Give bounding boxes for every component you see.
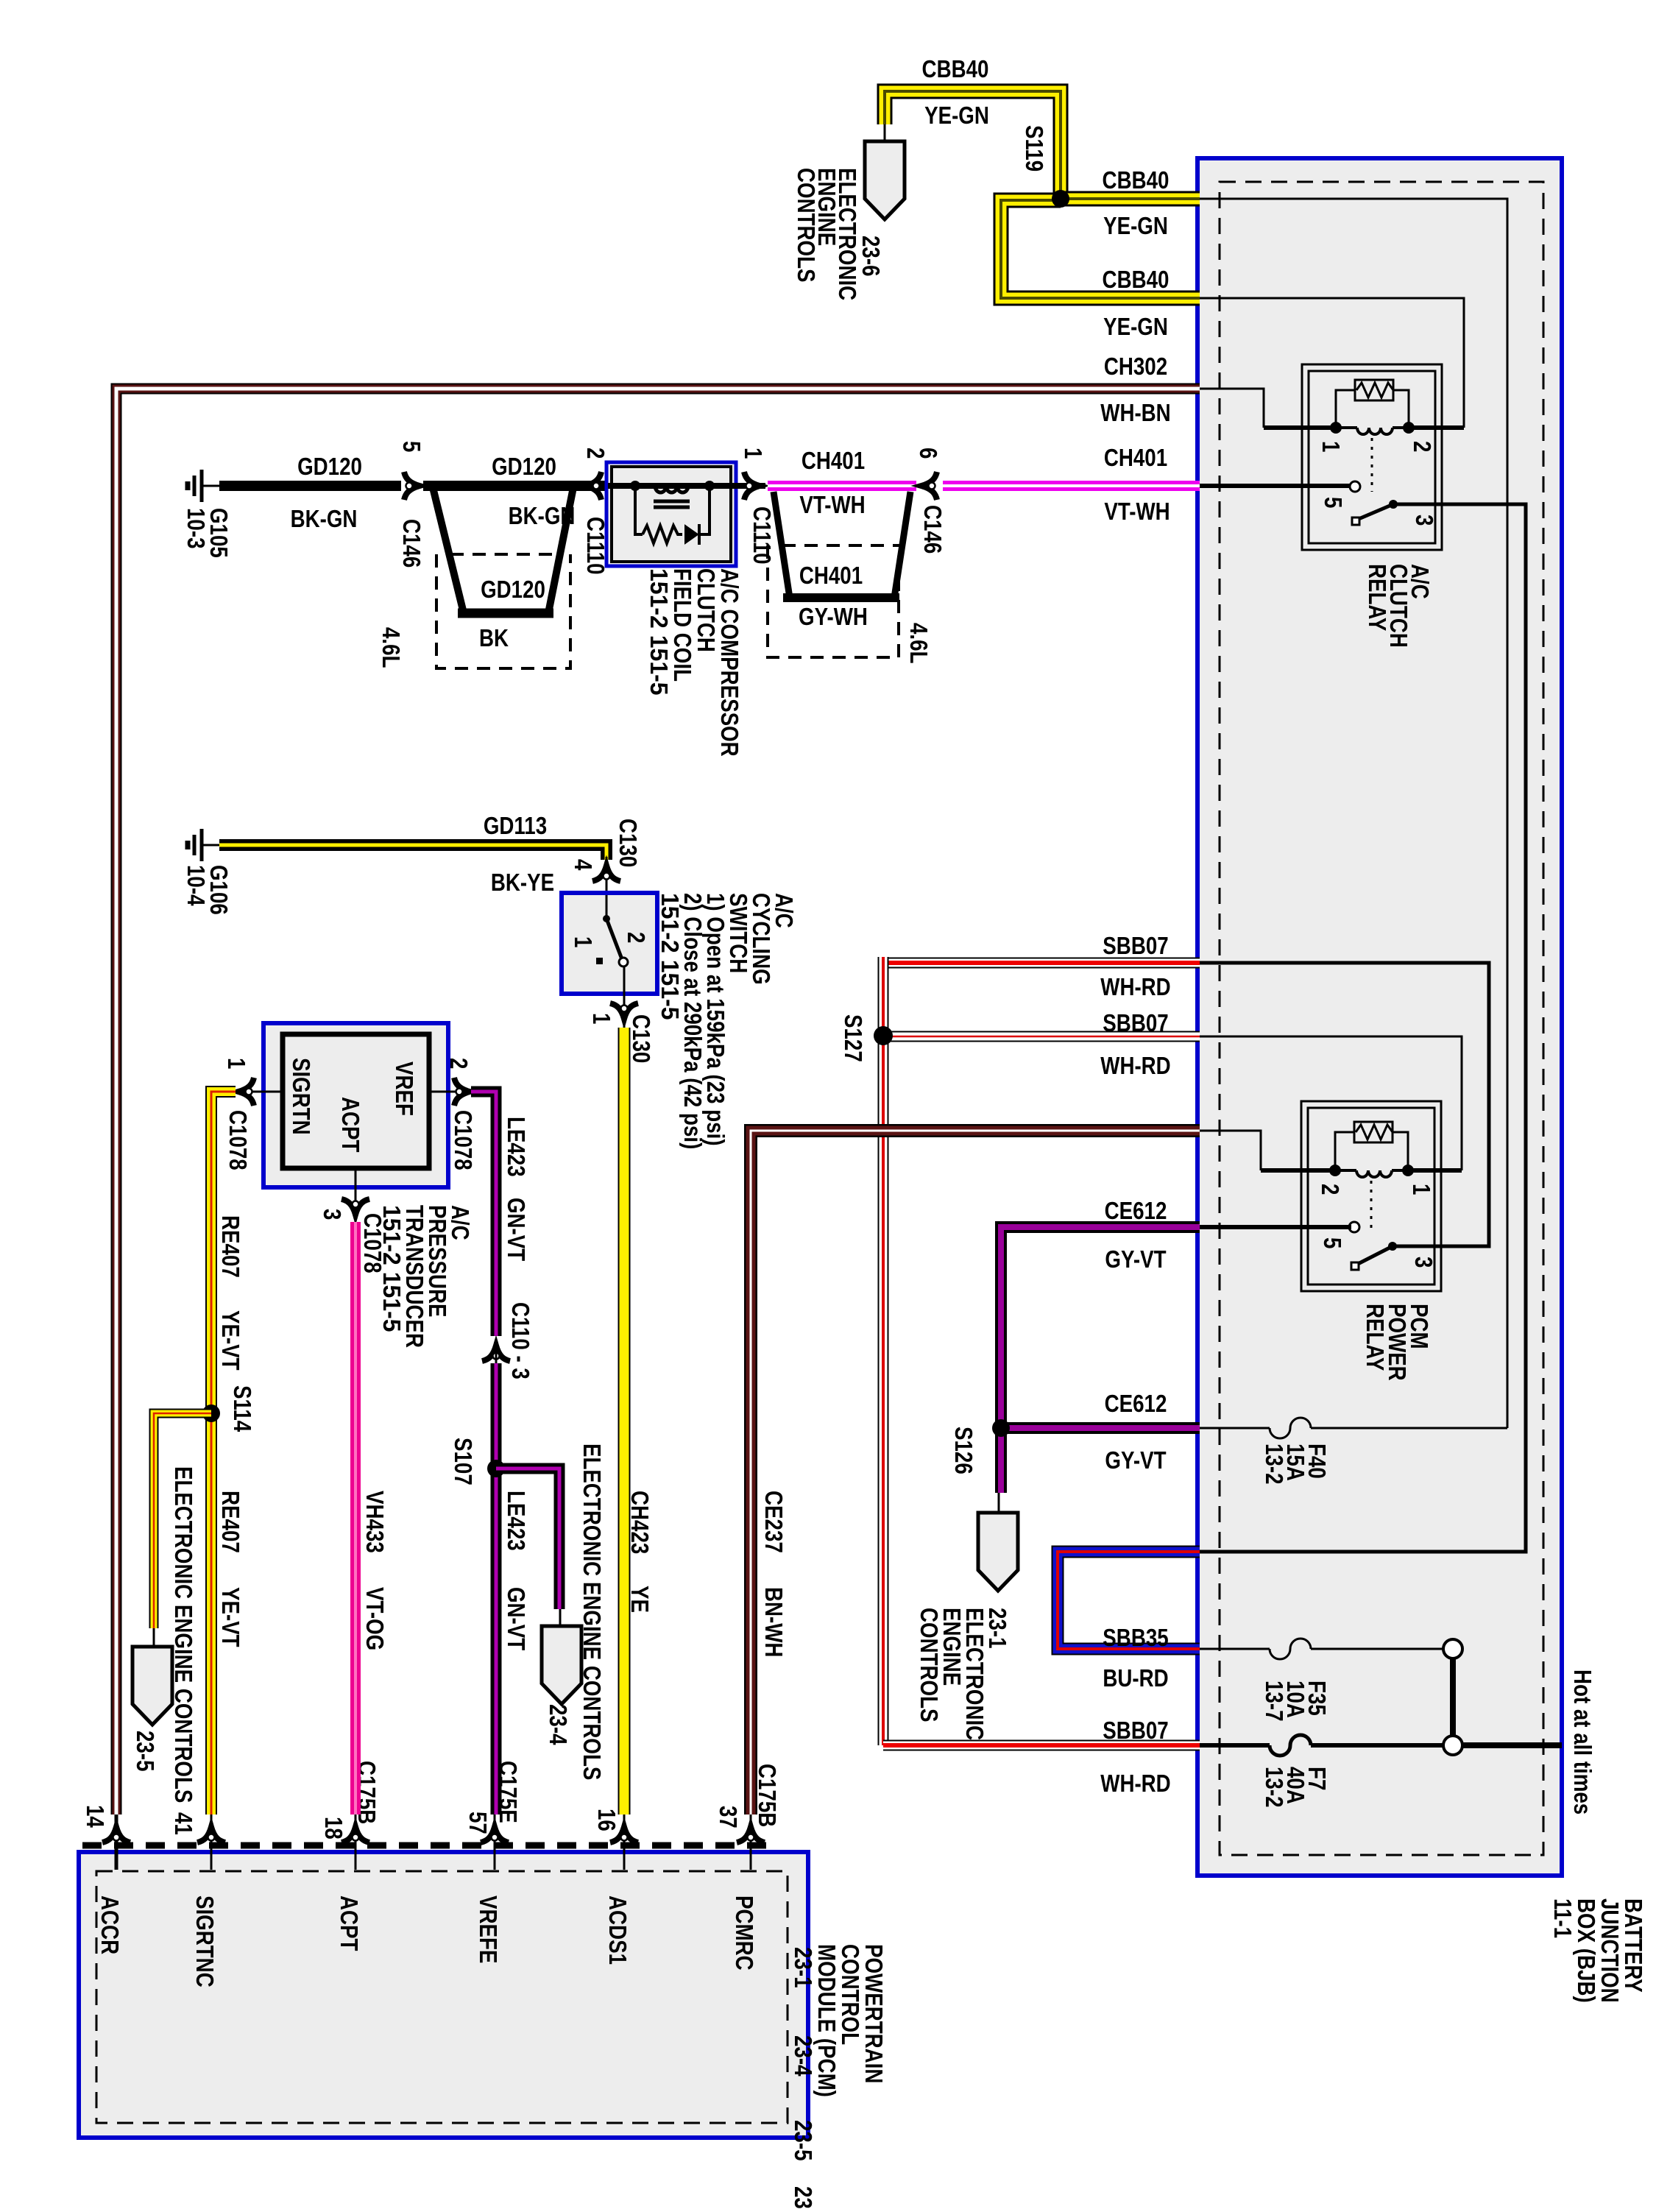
svg-text:57: 57 xyxy=(464,1812,492,1834)
BJB internal wire from CBB40 run2 to A/C relay coil pin 2 xyxy=(1200,298,1464,428)
pentagon connector 23-4 ELECTRONIC ENGINE CONTROLS xyxy=(559,1609,562,1628)
wire GD113 BK-YE from G106 to cycling switch xyxy=(219,845,606,860)
svg-text:GD120: GD120 xyxy=(492,453,556,480)
wire LE423 GN-VT from transducer pin2 down to PCM pin 57 xyxy=(471,1092,496,1336)
svg-text:ELECTRONIC ENGINE CONTROLS: ELECTRONIC ENGINE CONTROLS xyxy=(578,1444,606,1780)
transducer pin 3 wire + arrow C1078 xyxy=(355,1168,357,1222)
svg-text:10-3: 10-3 xyxy=(183,508,210,549)
svg-text:4.6L: 4.6L xyxy=(905,623,933,664)
svg-text:41: 41 xyxy=(170,1812,197,1835)
hot bus vertical link xyxy=(1450,1658,1456,1736)
svg-text:BK-YE: BK-YE xyxy=(491,869,554,896)
inline connector arrow 5 C146 xyxy=(404,472,420,500)
svg-text:CH401: CH401 xyxy=(799,562,863,589)
svg-text:11-1: 11-1 xyxy=(1549,1898,1577,1938)
svg-text:C146: C146 xyxy=(398,519,425,568)
svg-text:CH302: CH302 xyxy=(1104,353,1167,380)
svg-text:3: 3 xyxy=(1410,1257,1437,1268)
svg-text:CH401: CH401 xyxy=(802,447,865,474)
svg-text:CE237: CE237 xyxy=(760,1491,788,1553)
svg-text:YE-VT: YE-VT xyxy=(217,1587,244,1647)
svg-text:BK-GN: BK-GN xyxy=(509,502,576,529)
pentagon connector 23-1 ELECTRONIC ENGINE CONTROLS xyxy=(998,1493,1000,1515)
svg-text:WH-RD: WH-RD xyxy=(1100,1770,1170,1797)
BJB internal wire from CBB40 run1 to F40 (vertical at right) xyxy=(1200,199,1507,1428)
svg-text:CONTROLS: CONTROLS xyxy=(916,1608,943,1722)
svg-text:GD113: GD113 xyxy=(484,812,547,839)
svg-text:WH-BN: WH-BN xyxy=(1100,399,1170,426)
svg-text:WH-RD: WH-RD xyxy=(1100,1052,1170,1079)
svg-text:1: 1 xyxy=(1317,441,1345,452)
wire SBB07 WH-RD bottom run into BJB to F7 xyxy=(883,1740,1200,1751)
BJB inner dashed border xyxy=(1220,182,1543,1855)
svg-text:C1078: C1078 xyxy=(224,1110,252,1170)
ground G105 xyxy=(188,470,202,502)
field coil: resistor + diode branch xyxy=(635,486,643,534)
svg-text:2: 2 xyxy=(582,448,609,459)
pentagon connector 23-6 ELECTRONIC ENGINE CONTROLS xyxy=(884,124,886,144)
svg-text:23-4: 23-4 xyxy=(545,1704,572,1745)
wire CBB40 YE-GN Z-run from S119 (run 2) xyxy=(1001,200,1200,298)
svg-text:4: 4 xyxy=(570,859,597,871)
splice S127 xyxy=(874,1026,893,1045)
svg-text:CE612: CE612 xyxy=(1105,1197,1167,1224)
svg-text:GD120: GD120 xyxy=(297,453,362,480)
wire CE612 GY-VT from S126 back into BJB to fuse F40 xyxy=(1001,1422,1200,1434)
wire SBB07 WH-RD run2 into BJB xyxy=(883,1031,1200,1042)
wire SBB07 WH-RD left riser (S127) xyxy=(878,957,889,1745)
field coil: coil arcs with core lines xyxy=(655,486,688,492)
BJB internal wire: F7 fuse run from SBB07 bottom xyxy=(1200,1743,1270,1748)
svg-text:SBB07: SBB07 xyxy=(1103,1009,1168,1036)
BJB internal: CE612 to PCM relay pin 5 xyxy=(1200,1225,1351,1229)
svg-text:WH-RD: WH-RD xyxy=(1100,973,1170,1000)
svg-text:CONTROLS: CONTROLS xyxy=(793,168,820,283)
svg-text:S107: S107 xyxy=(450,1438,477,1485)
wire RE407 YE-VT from transducer pin1 down to PCM pin 41 xyxy=(211,1092,236,1815)
wire CH302 WH-BN from BJB down left side to PCM pin 14 xyxy=(116,389,1200,1815)
svg-text:RE407: RE407 xyxy=(217,1215,244,1278)
svg-text:C146: C146 xyxy=(919,505,946,554)
svg-text:LE423: LE423 xyxy=(503,1117,530,1177)
svg-text:BK-GN: BK-GN xyxy=(291,505,358,532)
svg-text:GN-VT: GN-VT xyxy=(503,1198,530,1261)
svg-text:3: 3 xyxy=(1411,515,1438,526)
svg-text:S127: S127 xyxy=(840,1014,867,1062)
component: A/C cycling switch box xyxy=(562,893,657,994)
BJB internal thick feed from PCM relay coil pin 1 up xyxy=(1408,1168,1462,1173)
svg-text:ACPT: ACPT xyxy=(337,1097,364,1153)
svg-text:13-2: 13-2 xyxy=(1261,1767,1288,1808)
svg-text:CH401: CH401 xyxy=(1104,444,1167,471)
svg-text:151-2 151-5: 151-2 151-5 xyxy=(645,568,673,696)
svg-text:CBB40: CBB40 xyxy=(1103,266,1170,293)
svg-text:C110 - 3: C110 - 3 xyxy=(507,1302,534,1379)
svg-text:23-4: 23-4 xyxy=(790,2035,817,2077)
wire GD120 BK-GN ground run xyxy=(219,481,401,491)
dashed 4.6L box (left) xyxy=(450,553,557,556)
powertrain control module (PCM) box xyxy=(79,1852,808,2138)
svg-text:1: 1 xyxy=(588,1013,615,1024)
wire CH401 VT-WH trapezoid top xyxy=(768,481,916,491)
svg-text:2: 2 xyxy=(1317,1184,1344,1195)
svg-text:23-6: 23-6 xyxy=(857,236,885,277)
svg-text:SIGRTNC: SIGRTNC xyxy=(191,1895,219,1987)
PCM connector dashed bus line xyxy=(82,1842,769,1849)
svg-text:RELAY: RELAY xyxy=(1364,564,1391,631)
svg-text:C1078: C1078 xyxy=(450,1110,477,1170)
splice S107 xyxy=(487,1460,505,1477)
battery junction box (BJB) outline xyxy=(1197,158,1562,1876)
svg-text:1: 1 xyxy=(740,448,767,459)
splice S126 xyxy=(992,1419,1010,1437)
fuse F35 10A xyxy=(1270,1639,1311,1659)
svg-text:ELECTRONIC ENGINE CONTROLS: ELECTRONIC ENGINE CONTROLS xyxy=(170,1466,197,1803)
svg-text:151-2 151-5: 151-2 151-5 xyxy=(657,893,684,1020)
relay: PCM POWER RELAY xyxy=(1301,1101,1441,1291)
svg-text:1: 1 xyxy=(223,1058,250,1069)
svg-text:SIGRTN: SIGRTN xyxy=(288,1058,315,1135)
svg-text:BN-WH: BN-WH xyxy=(760,1587,788,1657)
svg-text:23-5: 23-5 xyxy=(132,1731,159,1772)
svg-text:VT-WH: VT-WH xyxy=(1104,498,1170,525)
svg-text:SBB35: SBB35 xyxy=(1103,1624,1168,1651)
wire RE407 branch from S114 to pentagon 23-5 xyxy=(154,1413,211,1628)
svg-text:GD120: GD120 xyxy=(481,576,545,603)
svg-text:GY-WH: GY-WH xyxy=(799,603,868,630)
svg-text:VH433: VH433 xyxy=(361,1491,389,1553)
BJB internal: SBB07 run1 to PCM relay pin 3 xyxy=(1200,963,1489,1246)
wire SBB07 WH-RD run1 (thick) from S127 riser into BJB xyxy=(883,958,1200,969)
svg-text:YE-GN: YE-GN xyxy=(1103,212,1168,239)
svg-text:YE: YE xyxy=(626,1586,654,1613)
svg-text:13-7: 13-7 xyxy=(1261,1681,1288,1722)
inline connector C110-3 arrow xyxy=(482,1346,510,1361)
PCM pin 14 ACCR stub and arrow xyxy=(115,1815,118,1870)
dashed 4.6L box (right) xyxy=(782,544,902,547)
wire CE237 BN-WH from BJB down to PCM pin 37 xyxy=(751,1131,1200,1815)
trapezoid alt-wiring CH401 (4.6L) legs xyxy=(774,492,910,598)
A/C relay pin 3 wire to SBB35 exit xyxy=(1200,504,1526,1552)
fuse F40 15A xyxy=(1270,1418,1311,1438)
inline connector arrow 1 C1110 (right of coil) xyxy=(735,483,765,489)
connector arrow 4 C130 xyxy=(606,857,608,894)
trapezoid alt-wiring GD120 (4.6L) legs xyxy=(433,487,573,613)
wire LE423 GN-VT below C110-3 xyxy=(491,1363,502,1815)
svg-text:GY-VT: GY-VT xyxy=(1105,1446,1166,1474)
svg-text:5: 5 xyxy=(1320,497,1347,508)
svg-text:ACCR: ACCR xyxy=(96,1895,124,1954)
svg-text:GY-VT: GY-VT xyxy=(1105,1245,1166,1273)
svg-text:6: 6 xyxy=(915,448,942,459)
PCM pin 57 VREFE stub and arrow xyxy=(494,1815,496,1870)
BJB internal thick feed from A/C relay coil pin 2 xyxy=(1409,425,1464,430)
wire CH423 YE from cycling switch to PCM pin 16 xyxy=(618,1028,631,1815)
field coil: through wire xyxy=(608,483,735,489)
svg-text:13-2: 13-2 xyxy=(1261,1444,1288,1485)
cycling switch internals xyxy=(606,895,608,919)
svg-text:2: 2 xyxy=(445,1058,473,1069)
splice S119 xyxy=(1052,190,1069,208)
svg-text:18: 18 xyxy=(320,1817,347,1840)
BJB internal wire: F35 fuse run from SBB35 xyxy=(1200,1648,1270,1650)
svg-text:CH423: CH423 xyxy=(626,1491,654,1554)
component: A/C pressure transducer box xyxy=(263,1023,448,1187)
svg-text:Hot at all times: Hot at all times xyxy=(1569,1669,1596,1815)
svg-text:YE-GN: YE-GN xyxy=(1103,313,1168,340)
svg-text:RE407: RE407 xyxy=(217,1491,244,1553)
transducer pin 1 wire + arrow C1078 xyxy=(234,1091,283,1093)
inline connector arrow 6 C146 xyxy=(921,472,937,500)
svg-text:23-9: 23-9 xyxy=(790,2186,817,2208)
svg-text:C1110: C1110 xyxy=(749,506,776,565)
svg-text:1: 1 xyxy=(1408,1184,1435,1195)
svg-text:3: 3 xyxy=(319,1209,346,1220)
relay: A/C CLUTCH RELAY xyxy=(1302,364,1442,550)
svg-text:5: 5 xyxy=(398,441,425,452)
svg-text:S119: S119 xyxy=(1021,125,1048,172)
svg-text:10-4: 10-4 xyxy=(183,865,210,906)
wire SBB35 BU-RD U-loop outside BJB xyxy=(1058,1552,1200,1649)
svg-text:SBB07: SBB07 xyxy=(1103,932,1168,959)
svg-text:C1078: C1078 xyxy=(359,1213,386,1273)
svg-text:BU-RD: BU-RD xyxy=(1103,1664,1168,1692)
svg-text:CBB40: CBB40 xyxy=(1103,166,1170,194)
PCM pin 16 ACDS1 stub and arrow xyxy=(623,1815,626,1870)
svg-text:4.6L: 4.6L xyxy=(378,627,405,668)
splice S114 xyxy=(202,1404,220,1422)
svg-text:C130: C130 xyxy=(615,819,642,867)
svg-text:23-5: 23-5 xyxy=(790,2120,817,2161)
svg-text:14: 14 xyxy=(82,1805,109,1828)
wire LE423 branch from S107 to pentagon 23-4 xyxy=(496,1469,559,1609)
wire CE612 GY-VT from BJB to S126 riser xyxy=(1001,1227,1200,1493)
svg-text:CBB40: CBB40 xyxy=(922,55,989,82)
wire CH401 VT-WH from C146 into BJB xyxy=(943,481,1200,491)
svg-text:23-1: 23-1 xyxy=(790,1947,817,1988)
svg-text:2: 2 xyxy=(1409,441,1436,452)
BJB internal wire from CH302 to A/C relay coil pin 1 xyxy=(1200,389,1264,428)
svg-text:VREFE: VREFE xyxy=(475,1895,502,1963)
hot feed wire to box edge (Hot at all times) xyxy=(1462,1742,1562,1748)
BJB internal wire: F40 fuse run xyxy=(1200,1427,1270,1430)
svg-text:SBB07: SBB07 xyxy=(1103,1717,1168,1744)
ground G106 xyxy=(188,829,202,861)
svg-text:2: 2 xyxy=(623,932,650,943)
transducer pin 2 wire + arrow C1078 xyxy=(429,1091,471,1093)
pentagon connector 23-5 ELECTRONIC ENGINE CONTROLS xyxy=(153,1628,155,1649)
component: A/C compressor clutch field coil box xyxy=(606,462,736,566)
PCM pin 37 PCMRC stub and arrow xyxy=(750,1815,752,1870)
wire GD120 BK-GN to field coil xyxy=(423,481,608,491)
PCM pin 18 ACPT stub and arrow xyxy=(355,1815,357,1870)
connector arrow 1 C130 (below switch) xyxy=(623,966,626,1028)
BJB internal wire CH401 to A/C relay pin 5 xyxy=(1200,484,1351,488)
svg-text:GN-VT: GN-VT xyxy=(503,1587,530,1650)
svg-text:YE-VT: YE-VT xyxy=(217,1310,244,1371)
fuse F7 40A xyxy=(1270,1735,1311,1756)
svg-text:CE612: CE612 xyxy=(1105,1390,1167,1417)
wire VH433 VT-OG from transducer pin3 down to PCM pin 18 xyxy=(350,1222,361,1815)
svg-text:C175B: C175B xyxy=(754,1764,781,1827)
svg-text:16: 16 xyxy=(593,1809,620,1831)
wire CBB40 YE-GN from S119 into BJB (run 1) xyxy=(1061,191,1200,207)
svg-text:YE-GN: YE-GN xyxy=(924,102,989,129)
hot feed ring terminal (top) xyxy=(1443,1639,1462,1658)
BJB internal thick feed to A/C relay coil pin 1 xyxy=(1264,425,1336,430)
svg-text:BK: BK xyxy=(479,624,509,651)
wire CBB40 YE-GN top run with corner down to pentagon stub xyxy=(885,91,1061,199)
hot feed ring terminal (bottom) xyxy=(1443,1736,1462,1755)
svg-text:VREF: VREF xyxy=(391,1061,418,1116)
svg-text:1: 1 xyxy=(570,936,597,947)
svg-text:ACPT: ACPT xyxy=(336,1895,363,1951)
svg-text:37: 37 xyxy=(715,1806,742,1828)
BJB internal: CE237 to PCM relay coil pin 2 xyxy=(1200,1131,1261,1170)
svg-text:RELAY: RELAY xyxy=(1362,1304,1389,1371)
PCM inner dashed border xyxy=(96,1871,788,2123)
svg-text:S114: S114 xyxy=(229,1385,256,1432)
svg-text:VT-OG: VT-OG xyxy=(361,1587,389,1650)
svg-text:ACDS1: ACDS1 xyxy=(604,1895,631,1965)
svg-text:LE423: LE423 xyxy=(503,1491,530,1551)
BJB internal: SBB07 run2 to PCM relay coil pin 1 xyxy=(1200,1036,1462,1170)
svg-text:5: 5 xyxy=(1319,1237,1346,1248)
svg-text:VT-WH: VT-WH xyxy=(799,491,865,518)
inline connector arrow 2 C1110 (left of coil) xyxy=(586,472,601,500)
svg-text:PCMRC: PCMRC xyxy=(731,1895,758,1971)
PCM pin 41 SIGRTNC stub and arrow xyxy=(210,1815,213,1870)
svg-text:S126: S126 xyxy=(950,1427,977,1474)
svg-text:C130: C130 xyxy=(628,1014,655,1063)
